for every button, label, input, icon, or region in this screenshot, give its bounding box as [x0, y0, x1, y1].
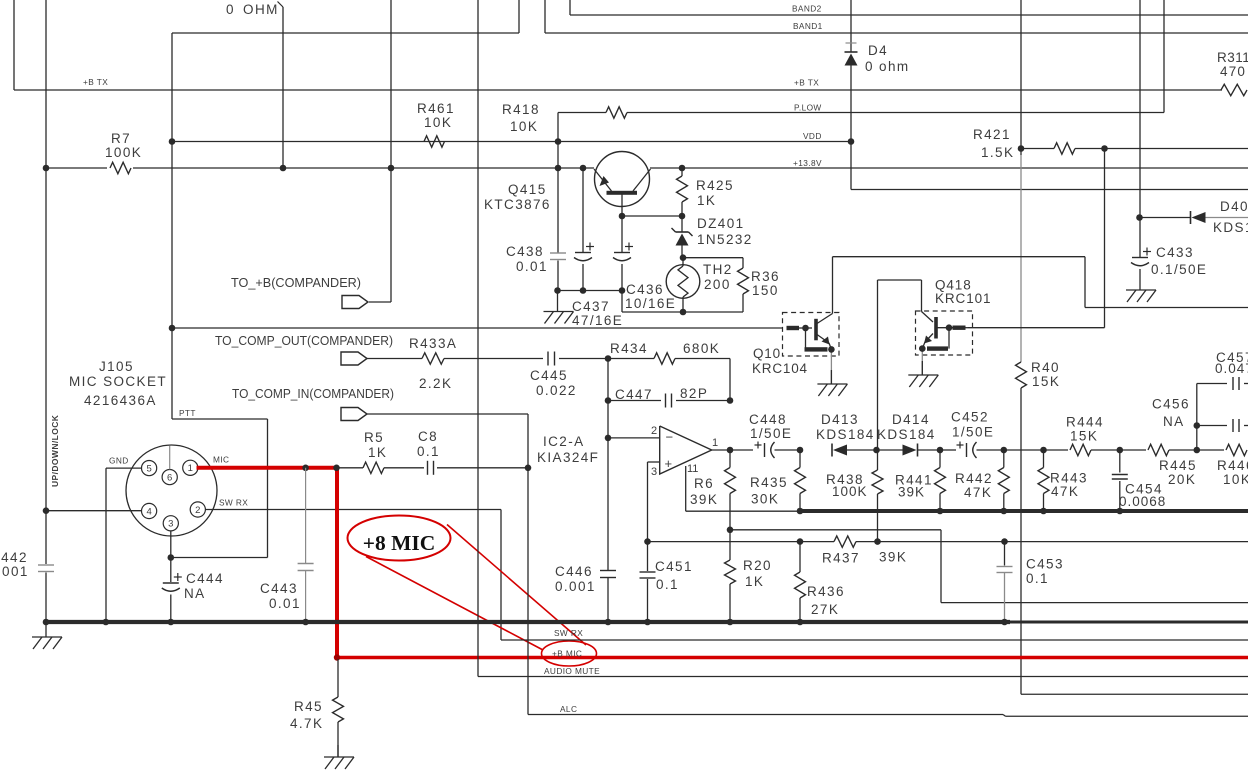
- wire pin3 down: [170, 531, 172, 582]
- svg-text:TO_+B(COMPANDER): TO_+B(COMPANDER): [231, 276, 361, 290]
- label Q418: [935, 278, 991, 307]
- svg-text:+13.8V: +13.8V: [793, 158, 822, 168]
- node bus/GNDwire: [103, 619, 110, 626]
- wire out rail segment: [1004, 449, 1044, 451]
- resistor R436: [795, 542, 845, 622]
- node Q10 base: [802, 325, 809, 332]
- svg-text:UP/DOWN/LOCK: UP/DOWN/LOCK: [50, 414, 60, 487]
- capacitor C448: [749, 412, 800, 458]
- svg-text:470: 470: [1220, 64, 1246, 79]
- ground under C438: [544, 291, 574, 324]
- capacitor C451: [640, 542, 693, 622]
- diode D413: [816, 412, 877, 457]
- wire +B TX vertical left end: [13, 0, 15, 90]
- svg-text:KDS184: KDS184: [877, 427, 936, 442]
- node R7 left: [43, 165, 50, 172]
- svg-text:GND: GND: [109, 456, 129, 466]
- node rail/R443: [1040, 447, 1047, 454]
- wire pin2 input: [608, 437, 660, 439]
- resistor R433A: [367, 336, 543, 391]
- svg-text:BAND2: BAND2: [792, 4, 822, 14]
- svg-text:D404: D404: [1220, 199, 1248, 214]
- svg-text:100K: 100K: [105, 145, 142, 160]
- label GND: [109, 456, 129, 466]
- svg-text:10K: 10K: [1223, 472, 1248, 487]
- node TH2 bottom: [680, 309, 687, 316]
- svg-text:39K: 39K: [690, 492, 718, 507]
- svg-text:0.1: 0.1: [656, 577, 679, 592]
- svg-text:ALC: ALC: [560, 704, 577, 714]
- svg-text:+B MIC: +B MIC: [552, 649, 582, 659]
- wire +B MIC red line: [335, 656, 1248, 660]
- ground bus: [46, 620, 1248, 624]
- node output/x730: [727, 447, 734, 454]
- svg-text:D414: D414: [892, 412, 930, 427]
- capacitor C444: [162, 571, 224, 622]
- resistor R441: [895, 450, 946, 511]
- node pin3/PTT: [168, 554, 175, 561]
- resistor R446: [1197, 444, 1248, 487]
- node pin4/x46: [43, 507, 50, 514]
- svg-text:R445: R445: [1159, 458, 1197, 473]
- node Q418 base: [946, 324, 953, 331]
- svg-text:39K: 39K: [879, 550, 907, 565]
- capacitor C445: [530, 352, 608, 399]
- svg-text:+: +: [665, 456, 673, 471]
- node rail/C437: [580, 287, 587, 294]
- resistor R437: [822, 536, 907, 566]
- node R425/DZ401: [679, 213, 686, 220]
- diode D414: [877, 412, 941, 457]
- svg-text:10K: 10K: [424, 115, 452, 130]
- pin 3: [163, 516, 178, 531]
- svg-text:+B TX: +B TX: [794, 78, 819, 88]
- svg-text:R5: R5: [364, 430, 384, 445]
- capacitor C447: [608, 386, 730, 408]
- ground under Q10: [817, 370, 847, 396]
- label SW RX small: [554, 628, 583, 638]
- callout ellipse +8 MIC: [348, 516, 451, 561]
- capacitor C438: [506, 244, 566, 274]
- wire long vertical x=46: [45, 0, 47, 622]
- node bus/R441: [937, 508, 944, 515]
- svg-text:1K: 1K: [368, 445, 387, 460]
- node D413/D414: [873, 447, 880, 454]
- node rail/C436: [619, 287, 626, 294]
- svg-text:TO_COMP_OUT(COMPANDER): TO_COMP_OUT(COMPANDER): [215, 334, 393, 348]
- svg-text:BAND1: BAND1: [793, 21, 823, 31]
- node x391/+13.8V: [388, 165, 395, 172]
- svg-text:C447: C447: [615, 387, 653, 402]
- svg-text:C446: C446: [555, 564, 593, 579]
- svg-text:0.001: 0.001: [0, 564, 29, 579]
- ground under Q418: [908, 361, 938, 387]
- svg-text:J105: J105: [99, 359, 134, 374]
- node VDD start: [169, 138, 176, 145]
- wire x1197 vertical: [1196, 384, 1198, 451]
- svg-text:47K: 47K: [964, 485, 992, 500]
- svg-text:Q10: Q10: [753, 346, 781, 361]
- label Q10: [752, 346, 808, 376]
- node bus/C454: [1117, 508, 1124, 515]
- ground under R45: [324, 745, 354, 769]
- label +B MIC: [552, 649, 582, 659]
- svg-text:R45: R45: [294, 699, 323, 714]
- svg-text:R6: R6: [694, 476, 714, 491]
- capacitor C437: [572, 168, 623, 328]
- transistor Q10: [783, 313, 840, 385]
- wire red vertical: [335, 466, 339, 658]
- resistor R36: [683, 258, 780, 312]
- resistor R438: [826, 450, 883, 542]
- svg-text:Q415: Q415: [508, 182, 547, 197]
- svg-text:0.1/50E: 0.1/50E: [1151, 262, 1207, 277]
- svg-text:R434: R434: [610, 341, 648, 356]
- capacitor C443: [260, 468, 314, 622]
- svg-text:C456: C456: [1152, 397, 1190, 412]
- pin 6: [162, 446, 177, 485]
- label J105: [69, 359, 167, 408]
- node R437 left: [797, 538, 804, 545]
- diode D4: [845, 0, 910, 142]
- svg-text:R425: R425: [696, 178, 734, 193]
- flag TO_COMP_IN: [341, 408, 367, 421]
- svg-text:1K: 1K: [745, 574, 764, 589]
- resistor R435: [750, 450, 806, 511]
- ground at bus left: [32, 622, 62, 649]
- wire BAND1 net: [172, 0, 1248, 33]
- resistor R442: [955, 450, 1009, 511]
- svg-text:C453: C453: [1026, 557, 1064, 572]
- svg-text:1: 1: [188, 463, 193, 474]
- svg-text:TO_COMP_IN(COMPANDER): TO_COMP_IN(COMPANDER): [232, 387, 394, 401]
- node bus/C443: [302, 619, 309, 626]
- svg-text:IC2-A: IC2-A: [543, 434, 585, 449]
- pin 2: [190, 502, 205, 517]
- resistor R45: [290, 659, 344, 757]
- svg-text:AUDIO MUTE: AUDIO MUTE: [544, 666, 600, 676]
- wire MIC red line: [197, 466, 340, 470]
- svg-text:R433A: R433A: [409, 336, 457, 351]
- svg-text:4.7K: 4.7K: [290, 716, 323, 731]
- thermistor TH2: [666, 258, 733, 312]
- capacitor C436: [613, 216, 676, 311]
- node x1197/C456: [1194, 422, 1201, 429]
- svg-text:4216436A: 4216436A: [84, 393, 157, 408]
- svg-text:0.0068: 0.0068: [1119, 494, 1166, 509]
- wire BAND2 net: [570, 0, 1248, 15]
- svg-text:0 ohm: 0 ohm: [865, 59, 910, 74]
- svg-text:100K: 100K: [832, 484, 868, 499]
- node bus/R443: [1040, 508, 1047, 515]
- wire pin3 input: [648, 462, 660, 542]
- svg-text:+B TX: +B TX: [83, 77, 108, 87]
- svg-text:C445: C445: [530, 368, 568, 383]
- node red corner2: [334, 654, 340, 660]
- svg-text:2: 2: [651, 425, 657, 437]
- wire +13.8V net: [46, 167, 1248, 169]
- svg-text:KTC3876: KTC3876: [484, 197, 551, 212]
- resistor R40: [1016, 360, 1061, 389]
- label BAND1: [793, 21, 823, 31]
- svg-text:R36: R36: [751, 269, 780, 284]
- label PTT: [179, 408, 196, 418]
- label BAND2: [792, 4, 822, 14]
- label UP/DOWN/LOCK: [50, 414, 60, 487]
- pin 1: [183, 460, 198, 475]
- node R433A line/x608: [605, 355, 612, 362]
- wire PTT path: [171, 419, 268, 558]
- op-amp IC2-A: [651, 425, 718, 478]
- resistor R444: [1044, 415, 1120, 456]
- svg-text:C438: C438: [506, 244, 544, 259]
- label +13.8V: [793, 158, 822, 168]
- svg-text:0.022: 0.022: [536, 383, 577, 398]
- svg-text:R435: R435: [750, 475, 788, 490]
- svg-text:VDD: VDD: [803, 131, 822, 141]
- svg-text:R444: R444: [1066, 415, 1104, 430]
- svg-text:C437: C437: [572, 299, 610, 314]
- capacitor C452: [940, 410, 1004, 459]
- svg-text:0.01: 0.01: [516, 259, 548, 274]
- wire pin4 to x46: [46, 510, 142, 512]
- svg-text:KRC101: KRC101: [935, 291, 991, 306]
- svg-text:KIA324F: KIA324F: [537, 450, 599, 465]
- node pin3 bottom: [644, 538, 651, 545]
- callout line 1: [366, 557, 543, 651]
- node Q10 emitter: [828, 346, 835, 353]
- svg-text:P.LOW: P.LOW: [794, 103, 822, 113]
- callout line 2: [447, 525, 586, 646]
- node bus/R436: [797, 619, 804, 626]
- wire cap common rail: [558, 291, 684, 313]
- svg-text:NA: NA: [184, 586, 206, 601]
- label 0 OHM: [226, 2, 279, 17]
- resistor R6: [690, 450, 736, 530]
- wire TO_COMP_IN run: [367, 414, 528, 715]
- node bus/C453: [1001, 619, 1008, 626]
- zener DZ401: [672, 216, 753, 258]
- wire vertical x=558: [557, 113, 559, 291]
- svg-text:150: 150: [752, 283, 779, 298]
- wire GND pin5: [106, 468, 142, 622]
- svg-text:0.1: 0.1: [417, 444, 440, 459]
- svg-text:C436: C436: [626, 282, 664, 297]
- resistor R421: [973, 127, 1248, 160]
- resistor R445: [1120, 444, 1197, 487]
- svg-text:KDS184: KDS184: [816, 427, 875, 442]
- capacitor C457: [1197, 350, 1248, 390]
- svg-text:1.5K: 1.5K: [981, 145, 1014, 160]
- wire Q418 collector: [878, 280, 922, 450]
- svg-text:4: 4: [146, 506, 151, 517]
- svg-text:MIC SOCKET: MIC SOCKET: [69, 374, 167, 389]
- node rail/C438: [554, 287, 561, 294]
- wire P.LOW net: [558, 0, 1164, 113]
- svg-text:0.01: 0.01: [269, 596, 301, 611]
- resistor R418: [502, 102, 627, 134]
- resistor R311: [1217, 50, 1248, 96]
- node bus/R20: [727, 619, 734, 626]
- node pin2/x608: [605, 435, 612, 442]
- svg-text:0.047: 0.047: [1215, 361, 1248, 376]
- flag TO_COMP_OUT: [341, 352, 367, 365]
- label +B TX right: [794, 78, 819, 88]
- node +13.8V/R425: [679, 165, 686, 172]
- wire vertical x=1105 to Q418 base: [968, 149, 1105, 328]
- label SW RX: [219, 498, 248, 508]
- node D414/R441: [937, 447, 944, 454]
- svg-text:27K: 27K: [811, 602, 839, 617]
- svg-text:R418: R418: [502, 102, 540, 117]
- wire TO_COMP_OUT run: [172, 327, 783, 329]
- svg-text:1N5232: 1N5232: [697, 232, 753, 247]
- svg-text:C433: C433: [1156, 245, 1194, 260]
- svg-text:0.1: 0.1: [1026, 571, 1049, 586]
- node red corner: [333, 465, 340, 472]
- svg-text:R437: R437: [822, 551, 860, 566]
- wire +B TX net horizontal: [14, 89, 1222, 91]
- label TO_COMP_OUT(COMPANDER): [215, 334, 393, 348]
- label +B TX left: [83, 77, 108, 87]
- svg-text:KRC104: KRC104: [752, 361, 808, 376]
- bus thick y=511: [800, 509, 1248, 513]
- svg-text:R436: R436: [807, 584, 845, 599]
- node bus/C444: [168, 619, 175, 626]
- wire pin3 node line: [648, 541, 1248, 543]
- node C453 top: [1001, 538, 1008, 545]
- svg-text:−: −: [666, 430, 674, 445]
- svg-text:1/50E: 1/50E: [750, 426, 792, 441]
- label P.LOW: [794, 103, 822, 113]
- svg-text:NA: NA: [1163, 414, 1185, 429]
- label MIC: [213, 455, 229, 465]
- node VDD/x558: [555, 138, 562, 145]
- svg-text:1: 1: [712, 437, 718, 449]
- resistor R7: [105, 131, 142, 174]
- svg-text:C448: C448: [749, 412, 787, 427]
- node jumper/+13.8V: [280, 165, 287, 172]
- svg-text:C8: C8: [418, 429, 438, 444]
- node Q418 emitter: [919, 345, 926, 352]
- node rail/x1197: [1194, 447, 1201, 454]
- wire x=608 vertical: [607, 359, 609, 623]
- svg-text:15K: 15K: [1070, 429, 1098, 444]
- resistor R461: [417, 101, 455, 147]
- capacitor C8: [417, 429, 528, 475]
- pin 5: [142, 461, 157, 476]
- label Q415: [484, 182, 551, 212]
- svg-text:39K: 39K: [898, 485, 925, 500]
- node R421 right: [1101, 145, 1108, 152]
- svg-text:47/16E: 47/16E: [572, 313, 623, 328]
- wire pin11: [686, 466, 800, 511]
- svg-text:30K: 30K: [751, 492, 779, 507]
- callout ellipse +B MIC: [542, 641, 597, 666]
- resistor R425: [677, 168, 734, 216]
- resistor R434: [608, 341, 730, 401]
- label AUDIO MUTE: [544, 666, 600, 676]
- wire VDD net: [172, 141, 851, 143]
- node R421 left: [1018, 145, 1025, 152]
- svg-text:200: 200: [704, 277, 731, 292]
- node C443 tap: [302, 465, 309, 472]
- capacitor C446: [555, 564, 616, 594]
- node +13.8V/x558: [555, 165, 562, 172]
- label VDD: [803, 131, 822, 141]
- svg-text:47K: 47K: [1051, 484, 1079, 499]
- svg-text:1/50E: 1/50E: [952, 425, 994, 440]
- svg-text:C451: C451: [655, 559, 693, 574]
- wire long vertical x=172: [171, 33, 173, 419]
- resistor R20: [725, 530, 772, 622]
- svg-text:C444: C444: [186, 571, 224, 586]
- node bus/gnd: [43, 619, 50, 626]
- svg-text:20K: 20K: [1168, 472, 1196, 487]
- node +13.8V/x583: [580, 165, 587, 172]
- svg-text:2.2K: 2.2K: [419, 376, 452, 391]
- node DZ401/TH2: [680, 254, 687, 261]
- svg-text:D4: D4: [868, 43, 888, 58]
- svg-text:82P: 82P: [680, 386, 708, 401]
- svg-text:11: 11: [687, 463, 698, 475]
- node Q415 base: [619, 213, 626, 220]
- svg-text:D413: D413: [821, 412, 859, 427]
- node x1140/D40x: [1136, 214, 1143, 221]
- wire output: [712, 449, 753, 451]
- svg-text:R40: R40: [1031, 360, 1060, 375]
- wire vertical x=1021: [1021, 0, 1248, 694]
- node C447/x608: [605, 397, 612, 404]
- svg-text:R20: R20: [743, 558, 772, 573]
- node bus/R442: [1001, 508, 1008, 515]
- node C448/D413: [797, 447, 804, 454]
- svg-text:R7: R7: [111, 131, 131, 146]
- node C447/x730: [727, 397, 734, 404]
- node TO_COMP_OUT start: [169, 325, 176, 332]
- capacitor C453: [997, 542, 1064, 622]
- connector J105 shell: [126, 445, 217, 536]
- capacitor C456: [1152, 397, 1248, 433]
- wire vertical x=1140: [1139, 0, 1141, 218]
- node bus/C446: [605, 619, 612, 626]
- svg-text:+8 MIC: +8 MIC: [363, 531, 436, 555]
- svg-text:0 OHM: 0 OHM: [226, 2, 279, 17]
- svg-text:KDS184: KDS184: [1213, 220, 1248, 235]
- svg-text:C452: C452: [951, 410, 989, 425]
- label IC2-A: [537, 434, 599, 465]
- svg-text:TH2: TH2: [703, 262, 733, 277]
- node feedback/x730: [727, 527, 734, 534]
- svg-text:R311: R311: [1217, 50, 1248, 65]
- svg-text:3: 3: [651, 466, 657, 478]
- node TO_COMP_IN/C8: [525, 465, 532, 472]
- wire SW RX from pin2: [205, 510, 501, 641]
- resistor R5: [339, 430, 424, 474]
- ground under C433: [1126, 276, 1156, 302]
- flag TO_+B: [342, 296, 368, 309]
- pin 4: [142, 503, 157, 518]
- svg-text:MIC: MIC: [213, 455, 229, 465]
- diode D404: [1140, 199, 1248, 235]
- svg-text:R442: R442: [955, 471, 993, 486]
- svg-text:R421: R421: [973, 127, 1011, 142]
- wire Q10 collector: [833, 257, 1248, 314]
- svg-text:1K: 1K: [697, 193, 716, 208]
- capacitor C454: [1112, 450, 1166, 511]
- svg-text:6: 6: [167, 473, 172, 484]
- svg-text:680K: 680K: [683, 341, 720, 356]
